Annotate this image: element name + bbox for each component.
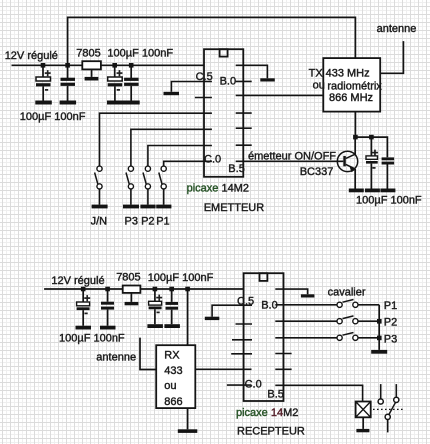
wire U1 row7 C.0 to switch P1: [164, 161, 212, 166]
pin stub U3 left row3: [236, 323, 253, 325]
junction dot (C2/top-rail on bus): [65, 63, 70, 68]
ground (C10): [164, 324, 180, 328]
pin stub U1 right row5: [236, 127, 252, 129]
wire U1 right row1 to ground: [236, 65, 268, 78]
label antenne (receiver): [96, 351, 136, 363]
ground (7805 emitter): [85, 77, 99, 81]
svg-text:radiométrix: radiométrix: [327, 80, 382, 92]
wire bus down to RX module: [187, 289, 189, 345]
svg-text:433: 433: [164, 365, 182, 377]
wire U1 right row3 to TX module input: [236, 94, 324, 96]
jumper switch P1 (receiver): [337, 300, 379, 308]
junction dot (C5 node): [369, 135, 374, 140]
junction dot (C3 on bus): [112, 63, 117, 68]
label 866 MHz: [329, 92, 373, 104]
label RX: [164, 350, 180, 362]
ground (relay coil): [356, 429, 369, 432]
ground (RX module): [178, 429, 198, 433]
label C.0 (emitter): [204, 153, 221, 165]
label C.5 (emitter): [196, 71, 213, 83]
ground (Q1 emitter): [349, 189, 364, 193]
switch J/N: [95, 166, 103, 205]
label C.0 (receiver): [245, 379, 262, 391]
label 100µF 100nF (receiver top): [148, 272, 214, 284]
label J/N: [91, 215, 108, 227]
svg-text:C.0: C.0: [204, 153, 221, 165]
svg-text:866 MHz: 866 MHz: [329, 92, 373, 104]
svg-text:P2: P2: [141, 215, 154, 227]
svg-text:C.5: C.5: [237, 296, 254, 308]
wire U3 row4 to jumper P3: [275, 337, 337, 339]
junction dot (C10 on bus): [169, 287, 174, 292]
label 100µF 100nF (receiver bottom): [59, 332, 125, 344]
pin stub U1 right row6: [236, 144, 252, 146]
label P1: [156, 215, 169, 227]
regulator U2 7805 (emitter): [82, 61, 101, 77]
relay coil K1 (crossed box): [356, 402, 371, 429]
capacitor C7 100µF polarized (receiver input): [77, 289, 91, 326]
svg-text:P2: P2: [384, 317, 397, 329]
svg-text:picaxe 14M2: picaxe 14M2: [236, 407, 298, 419]
svg-text:-: -: [45, 84, 49, 96]
svg-text:antenne: antenne: [96, 351, 136, 363]
svg-text:-: -: [156, 306, 160, 318]
pin stub U3 left row7 C.0: [227, 384, 252, 386]
svg-text:ou: ou: [313, 80, 325, 92]
label P3: [125, 215, 138, 227]
svg-text:P3: P3: [125, 215, 138, 227]
label 433 (RX): [164, 365, 182, 377]
relay contact terminal B: [394, 384, 399, 402]
ground (jumpers): [371, 350, 387, 354]
capacitor C10 100nF (receiver 5V): [166, 289, 179, 324]
label ou (TX): [313, 80, 325, 92]
wire B.0 to jumper P1: [275, 304, 337, 306]
svg-text:+: +: [116, 68, 122, 80]
wire RX output to U3 row6: [195, 368, 251, 370]
ground (P1): [156, 205, 171, 209]
junction dot (C7 on bus): [81, 287, 86, 292]
label 100µF 100nF (TX supply): [356, 195, 422, 207]
junction dot (jumper P2): [377, 319, 382, 324]
svg-text:866: 866: [164, 396, 182, 408]
svg-text:EMETTEUR: EMETTEUR: [204, 202, 265, 214]
svg-text:TX: TX: [309, 68, 324, 80]
wire U3 row3 to jumper P2: [275, 320, 337, 322]
svg-text:12V régulé: 12V régulé: [51, 275, 104, 287]
label B.0 (receiver): [261, 299, 278, 311]
label EMETTEUR: [204, 202, 265, 214]
label P3 (receiver): [384, 334, 397, 346]
label émetteur ON/OFF: [248, 151, 336, 163]
svg-text:100µF 100nF: 100µF 100nF: [356, 195, 422, 207]
svg-text:+: +: [372, 147, 378, 159]
svg-text:RECEPTEUR: RECEPTEUR: [237, 426, 305, 438]
svg-text:antenne: antenne: [377, 23, 417, 35]
svg-text:-: -: [117, 84, 121, 96]
svg-text:BC337: BC337: [300, 166, 334, 178]
svg-text:picaxe 14M2: picaxe 14M2: [187, 182, 249, 194]
ground (C7): [76, 326, 92, 330]
label TX: [309, 68, 324, 80]
capacitor C2 100nF (emitter input): [61, 65, 76, 100]
ground (C3): [107, 101, 124, 105]
svg-text:P1: P1: [384, 300, 397, 312]
svg-text:12V régulé: 12V régulé: [5, 50, 58, 62]
wire 12V supply bus (emitter): [12, 64, 205, 66]
junction dot (C8 on bus): [105, 287, 110, 292]
pin stub U1 left row3: [195, 97, 212, 99]
label 100µF 100nF (emitter bottom): [20, 111, 86, 123]
pin stub U1 right row2 B.0: [236, 80, 252, 82]
ground (C6): [380, 189, 395, 193]
svg-text:ou: ou: [164, 380, 176, 392]
label P2 (receiver): [384, 317, 397, 329]
svg-text:100µF 100nF: 100µF 100nF: [20, 111, 86, 123]
label RECEPTEUR: [237, 426, 305, 438]
label C.5 (receiver): [237, 296, 254, 308]
svg-text:C.0: C.0: [245, 379, 262, 391]
switch P2: [143, 166, 150, 205]
relay linkage (dotted): [373, 408, 404, 410]
label antenne (emitter): [377, 23, 417, 35]
svg-text:-: -: [84, 307, 88, 319]
pin stub U1 right row4: [236, 112, 252, 114]
svg-text:cavalier: cavalier: [328, 287, 366, 299]
capacitor C6 100nF (TX supply): [382, 157, 395, 188]
wire C.5 pin to ground (receiver): [212, 305, 252, 317]
junction dot (C1 on bus): [41, 63, 46, 68]
svg-text:P1: P1: [156, 215, 169, 227]
label cavalier: [328, 287, 366, 299]
ground (C2): [60, 101, 77, 105]
ground (C1): [35, 101, 52, 105]
label BC337: [300, 166, 334, 178]
ground (C5): [365, 189, 380, 193]
ground (C4): [123, 101, 140, 105]
wire B.5 to relay coil: [275, 385, 362, 401]
relay contact lever and common: [385, 403, 395, 433]
regulator U4 7805 (receiver): [123, 286, 141, 302]
wire U3 right row1 to ground: [275, 289, 307, 294]
ground (C8): [100, 326, 116, 330]
label 12V régulé: [5, 50, 58, 62]
svg-text:B.0: B.0: [220, 75, 237, 87]
svg-text:100µF 100nF: 100µF 100nF: [107, 48, 173, 60]
wire C.5 pin to ground (emitter): [171, 82, 212, 92]
svg-text:-: -: [372, 161, 376, 173]
label 7805 (receiver): [116, 272, 140, 284]
label picaxe 14M2 (emitter): [187, 182, 249, 194]
ground (P3): [123, 205, 139, 209]
label 100µF 100nF (emitter top): [107, 48, 173, 60]
svg-text:7805: 7805: [76, 47, 100, 59]
label P2: [141, 215, 154, 227]
svg-text:+: +: [84, 293, 90, 305]
label 433 MHz: [326, 68, 370, 80]
ground (J/N): [92, 205, 108, 209]
label 866 (RX): [164, 396, 182, 408]
label ou (RX): [164, 380, 176, 392]
junction dot (C9 on bus): [153, 287, 158, 292]
wire 12V top rail to TX module: [68, 17, 356, 65]
svg-text:+: +: [45, 68, 51, 80]
pin stub U3 right row6: [275, 368, 291, 370]
capacitor C9 100µF polarized (receiver 5V): [149, 289, 163, 324]
label 12V régulé (receiver): [51, 275, 104, 287]
junction dot (collector node): [353, 135, 358, 140]
svg-text:C.5: C.5: [196, 71, 213, 83]
ground (U3 right row1): [301, 294, 315, 297]
junction dot (C4 on bus): [129, 63, 134, 68]
junction dot (RX drop on bus): [185, 287, 190, 292]
wire collector node bus: [355, 137, 387, 157]
wire U1 row5 to switch P3: [131, 129, 212, 166]
relay contact terminal A: [378, 384, 383, 404]
junction dot (jumper P3): [377, 336, 382, 341]
wire RX module to ground: [187, 408, 189, 429]
wire 12V supply bus (receiver): [44, 288, 244, 290]
label 7805 (emitter): [76, 47, 100, 59]
IC U3 picaxe 14M2 (receiver) body with notch: [244, 273, 284, 401]
svg-text:P3: P3: [384, 334, 397, 346]
label P1 (receiver): [384, 300, 397, 312]
ground (U1 right row1): [260, 78, 275, 81]
svg-text:+: +: [156, 292, 162, 304]
pin stub U3 left row5: [231, 353, 252, 355]
svg-text:100µF 100nF: 100µF 100nF: [59, 332, 125, 344]
ground (7805 receiver): [125, 302, 139, 305]
label B.0 (emitter): [220, 75, 237, 87]
capacitor C3 100µF polarized (emitter 5V): [108, 65, 123, 100]
capacitor C4 100nF (emitter 5V): [124, 65, 139, 100]
switch P1: [159, 166, 166, 205]
label radiométrix: [327, 80, 382, 92]
wire jumper common down to ground: [378, 305, 380, 350]
jumper switch P2 (receiver): [337, 316, 379, 324]
svg-text:100µF 100nF: 100µF 100nF: [148, 272, 214, 284]
wire U1 row6 to switch P2: [148, 146, 212, 166]
module RX 433/866 box: [156, 345, 195, 408]
wire antenna to TX module: [380, 41, 403, 73]
svg-text:J/N: J/N: [91, 215, 108, 227]
capacitor C1 100µF polarized (emitter input): [36, 65, 51, 100]
svg-text:RX: RX: [164, 350, 180, 362]
ground (C9): [147, 324, 163, 328]
wire U1 B.5 to transistor base: [236, 160, 344, 162]
ground (C.5 emitter): [164, 92, 180, 95]
svg-text:B.0: B.0: [261, 299, 278, 311]
transistor Q1 BC337: [337, 137, 357, 188]
wire antenna to RX module: [140, 338, 156, 370]
svg-text:433 MHz: 433 MHz: [326, 68, 370, 80]
ground (C.5 receiver): [205, 317, 220, 320]
pin stub U3 left row4: [232, 339, 252, 341]
pin stub U3 right row5: [275, 353, 291, 355]
switch P3: [126, 166, 133, 205]
IC U1 picaxe 14M2 (emitter) body with notch: [204, 49, 243, 177]
wire TX output down to collector node: [354, 112, 356, 138]
label B.5 (emitter): [228, 163, 245, 175]
wire U1 row4 to switch J/N: [100, 113, 212, 166]
ground (P2): [140, 205, 155, 209]
module TX radiometrix box: [323, 58, 380, 112]
label picaxe 14M2 (receiver): [236, 407, 298, 419]
svg-text:B.5: B.5: [228, 163, 245, 175]
jumper switch P3 (receiver): [337, 333, 379, 341]
svg-text:7805: 7805: [116, 272, 140, 284]
capacitor C8 100nF (receiver input): [101, 289, 114, 326]
capacitor C5 100µF polarized (TX supply): [366, 137, 378, 188]
svg-text:B.5: B.5: [267, 389, 284, 401]
label B.5 (receiver): [267, 389, 284, 401]
